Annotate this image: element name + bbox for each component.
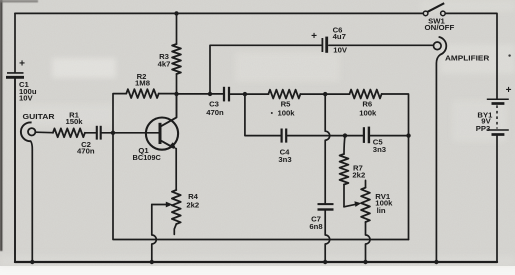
wire top +V rail <box>15 12 423 14</box>
wire R7 bottom lead <box>343 185 345 207</box>
wire Q1 collector <box>161 94 177 127</box>
resistor R2 1M8 <box>126 89 158 98</box>
wire RV1 bottom with hop over feedback line <box>366 222 371 262</box>
node amp tail / ground rail <box>434 260 438 264</box>
node collector R2/R3/C3 <box>174 92 178 96</box>
svg-text:2k2: 2k2 <box>186 201 199 210</box>
svg-text:10V: 10V <box>333 46 348 55</box>
amplifier output jack <box>434 37 447 55</box>
wire C6 line from collector branch <box>210 45 321 94</box>
svg-text:+: + <box>311 31 317 42</box>
wire R3 bottom lead to collector node <box>176 74 178 94</box>
capacitor C6 4u7 plates <box>321 38 323 52</box>
RV1 wiper arrowhead <box>354 201 361 207</box>
wire feedback line base to right vertical <box>113 133 409 240</box>
node base C2/R2/feedback <box>111 131 115 135</box>
dark left photo edge <box>0 0 2 251</box>
guitar input jack <box>21 122 36 141</box>
capacitor C1 100u plates <box>7 72 24 74</box>
svg-text:4u7: 4u7 <box>333 32 346 41</box>
svg-text:100k: 100k <box>359 108 377 117</box>
svg-text:GUITAR: GUITAR <box>23 112 55 121</box>
node R5/R6 <box>323 92 327 96</box>
svg-text:R4: R4 <box>188 192 199 201</box>
node R7 top on C4-C5 line <box>343 133 347 137</box>
wire RV1 top stub <box>365 180 367 187</box>
wire bottom ground rail <box>15 261 497 263</box>
capacitor C4 3n3 plates <box>281 129 283 143</box>
svg-text:2k2: 2k2 <box>352 170 365 179</box>
svg-text:3n3: 3n3 <box>278 155 291 164</box>
resistor R1 150k <box>53 128 85 137</box>
resistor R7 2k2 <box>340 154 349 185</box>
wire R2 right to collector node <box>159 93 177 95</box>
wire C5 right to right vertical <box>370 135 408 137</box>
wire R1 to C2 <box>85 132 96 134</box>
wire top rail after switch <box>445 13 497 98</box>
transistor Q1 BC109C <box>146 118 178 150</box>
wire left rail below C1 <box>14 78 16 262</box>
svg-text:470n: 470n <box>77 146 95 155</box>
svg-text:PP3: PP3 <box>476 124 491 133</box>
wire Q1 emitter to R4 <box>175 149 177 190</box>
node C6 branch <box>208 92 212 96</box>
switch SW1 ON/OFF <box>423 3 445 15</box>
svg-text:100k: 100k <box>277 108 295 117</box>
wire R7 top lead <box>344 136 345 154</box>
svg-text:lin: lin <box>377 206 386 215</box>
resistor R4 2k2 preset <box>172 190 181 224</box>
node RV1 / ground rail <box>363 260 367 264</box>
wire R3 top lead <box>176 13 178 44</box>
wire R6 right and right-side vertical <box>382 94 409 240</box>
R4 wiper arrowhead <box>166 202 173 208</box>
wire C4 right to R7 node and C5 <box>287 135 362 137</box>
svg-text:+: + <box>506 85 512 96</box>
resistor R5 100k <box>268 90 300 99</box>
capacitor C3 470n plates <box>223 87 225 102</box>
potentiometer RV1 100k lin track <box>361 188 370 222</box>
node top rail / R3 <box>174 11 178 15</box>
svg-text:AMPLIFIER: AMPLIFIER <box>445 54 490 63</box>
svg-text:150k: 150k <box>65 117 83 126</box>
label R5 dot artifact <box>271 112 273 114</box>
svg-text:6n8: 6n8 <box>309 222 323 231</box>
svg-text:R6: R6 <box>362 100 372 109</box>
svg-text:+: + <box>19 59 25 70</box>
node C3/R5/C4 <box>243 92 247 96</box>
wire amplifier jack tail <box>436 55 440 262</box>
svg-text:4k7: 4k7 <box>158 60 171 69</box>
node C5 right / R6 right <box>406 133 410 137</box>
resistor R6 100k <box>350 90 382 99</box>
wire guitar jack to R1 <box>36 131 53 134</box>
svg-text:3n3: 3n3 <box>373 145 386 154</box>
node R4 wiper / ground rail <box>150 260 154 264</box>
battery BY1 9V PP3 <box>487 99 509 134</box>
wire Q1 base from C2 <box>102 132 159 134</box>
svg-text:BC109C: BC109C <box>133 153 162 162</box>
wire R7 arrow to RV1 wiper <box>344 204 357 207</box>
resistor R3 4k7 <box>172 44 181 74</box>
capacitor C2 470n plates <box>96 126 98 140</box>
wire R4 wiper arm <box>152 204 168 206</box>
node jack tail / ground rail <box>30 260 34 264</box>
svg-text:10V: 10V <box>19 93 34 102</box>
capacitor C7 6n8 plates <box>318 203 334 205</box>
svg-text:470n: 470n <box>206 108 224 117</box>
node C7 / ground rail <box>323 260 327 264</box>
wire right rail battery to ground <box>496 136 498 262</box>
wire collector node to C3 <box>177 93 223 95</box>
speck artifact <box>508 54 510 56</box>
svg-text:1M8: 1M8 <box>135 79 151 88</box>
wire mid node down with hop over C4-C5 line <box>325 94 330 203</box>
wire guitar jack ground tail <box>31 141 33 262</box>
wire C6 to amplifier jack <box>329 44 434 46</box>
svg-text:ON/OFF: ON/OFF <box>425 23 455 32</box>
wire left rail above C1 <box>14 13 16 72</box>
svg-text:R5: R5 <box>281 100 292 109</box>
wire R2 left vertical to base node <box>113 94 126 133</box>
wire R4 wiper down with hop over feedback line <box>152 205 157 263</box>
wire C7 bottom with hop over feedback line <box>325 211 330 262</box>
wire R5 right to mid node <box>300 93 349 95</box>
wire R4 bottom stub <box>174 224 176 234</box>
wire C3 to R5 node <box>230 93 268 95</box>
wire C4 left drop from C3/R5 node <box>245 94 281 136</box>
capacitor C5 3n3 plates <box>363 127 365 143</box>
